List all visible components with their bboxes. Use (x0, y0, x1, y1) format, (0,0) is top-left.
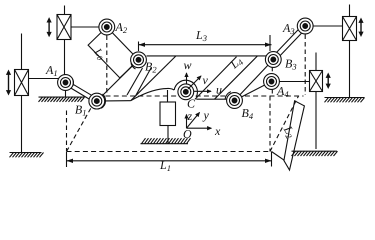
dimension line L3 (139, 35, 272, 51)
svg-text:x: x (214, 124, 221, 138)
revolute joint B4 (225, 92, 242, 109)
prismatic actuator P2 (crossed box, limb2) (57, 15, 71, 40)
svg-text:A1: A1 (45, 63, 58, 78)
central joint C (178, 84, 194, 100)
axis y at O (187, 113, 200, 129)
axis z at O (186, 115, 188, 129)
svg-text:O: O (183, 127, 192, 141)
dashed projection B3 to A4 (271, 67, 273, 73)
prismatic actuator P3 (crossed box, limb3) (343, 17, 357, 41)
platform right inner 45 line 1 (195, 57, 237, 99)
revolute joint A1 (58, 75, 74, 91)
ground hatch under A1 (39, 97, 85, 102)
link label L2 on A2-B2 (90, 46, 107, 63)
revolute joint B2 (131, 52, 147, 69)
dashed base left vertical edge (66, 111, 68, 152)
platform bottom edge C to B4 (196, 98, 227, 100)
link A4-B4 (235, 82, 272, 101)
axis u at C (194, 90, 211, 92)
ground hatch center (marks above) (141, 138, 191, 144)
dashed centerline of base (106, 95, 304, 97)
svg-text:w: w (184, 58, 192, 72)
svg-text:B4: B4 (242, 106, 254, 121)
stub center box to ground (167, 126, 169, 144)
column of limb 4 below P4 (315, 92, 317, 150)
ground hatch right middle (325, 98, 365, 103)
dashed projection A4 to centerline (271, 90, 273, 97)
svg-text:A4: A4 (276, 84, 289, 99)
double arrow of P3 (358, 18, 363, 38)
platform top edge (147, 55, 267, 57)
platform left end face edge 2 (136, 68, 152, 96)
svg-text:A3: A3 (282, 21, 295, 36)
svg-text:A2: A2 (115, 20, 128, 35)
column of limb 1 (far left) (21, 34, 23, 153)
revolute joint A3 (297, 18, 313, 34)
column of limb 2 (64, 6, 66, 76)
platform inner 45 line left (131, 56, 176, 101)
double arrow of P4 (326, 73, 331, 90)
arm P2 to A2 (71, 26, 99, 28)
dashed base left receding edge to B1 (67, 107, 92, 152)
svg-text:L0: L0 (90, 46, 107, 63)
revolute joint B3 (265, 52, 281, 68)
dashed base right receding edge (270, 96, 299, 152)
arm A3 to P3 (313, 25, 342, 27)
prismatic actuator P1 (crossed box, limb1) (15, 70, 29, 96)
rear link bar L2 bottom-right (284, 101, 305, 170)
rod above P4 (315, 53, 317, 71)
svg-text:B2: B2 (145, 60, 157, 75)
double arrow of P1 (6, 70, 11, 96)
svg-text:L2: L2 (280, 123, 299, 141)
ground hatch bottom-left (10, 153, 44, 158)
pedestal stub under A1 (65, 90, 67, 98)
dashed base right vertical edge (269, 96, 271, 152)
column of limb 3 (far right) (349, 5, 351, 17)
platform left end face edge 1 (127, 68, 143, 95)
arm P1 to A1 (29, 78, 60, 80)
stub platform to center box (167, 90, 169, 102)
platform bottom edge from B1 (105, 100, 131, 102)
arc around C (174, 80, 197, 97)
svg-text:B3: B3 (285, 57, 297, 72)
svg-text:u: u (216, 83, 222, 97)
platform right edge B4-B3 (235, 60, 274, 101)
svg-text:B1: B1 (75, 102, 87, 117)
axis v at C (188, 76, 201, 89)
corner connector to L1 line (272, 152, 285, 161)
svg-text:y: y (203, 108, 210, 122)
dashed projection vertical from A3 (304, 35, 306, 96)
double arrow of P2 (47, 17, 52, 37)
center actuator box on platform (160, 102, 176, 126)
dashed base front-bottom edge (67, 151, 271, 153)
axis x at O (187, 127, 212, 129)
revolute joint B1 (89, 93, 106, 109)
label L4 rotated (226, 53, 245, 73)
link A1-B1 double bar (64, 81, 98, 103)
svg-text:v: v (203, 73, 209, 87)
label L2 rotated on rear link (280, 123, 299, 141)
svg-text:z: z (187, 109, 193, 123)
svg-text:L3: L3 (195, 28, 207, 43)
link A2-B2 drawn as rectangle (88, 27, 138, 78)
revolute joint A4 (264, 74, 280, 90)
platform left edge B1-B2 (97, 60, 139, 101)
dimension line L1 (67, 152, 272, 168)
link A3-B3 double bar (271, 25, 307, 61)
arm A4 to P4 (279, 81, 309, 83)
axis w at C (186, 73, 188, 84)
dashed projection vertical from A2 (106, 36, 108, 97)
platform right inner 45 line 2 (215, 56, 258, 99)
ground hatch bottom-right (marks above) (292, 151, 338, 156)
prismatic actuator P4 (crossed box, limb4) (310, 71, 323, 92)
platform S-curve to arc around C (131, 88, 175, 100)
revolute joint A2 (99, 19, 115, 35)
